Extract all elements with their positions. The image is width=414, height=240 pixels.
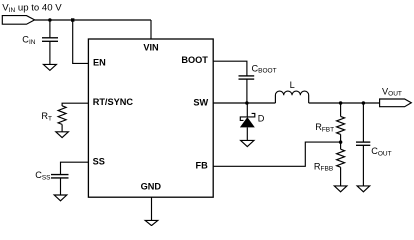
wire: CBOOT to SW node (246, 79, 248, 103)
wire: COUT lead down (362, 103, 364, 142)
node: CIN tap junction (48, 18, 52, 22)
svg-text:FB: FB (196, 160, 209, 170)
svg-text:EN: EN (93, 58, 106, 68)
diode D anode triangle (240, 117, 255, 127)
wire: CIN tap down (49, 20, 51, 38)
capacitor CBOOT (239, 76, 255, 79)
ground (CIN) (43, 64, 56, 70)
svg-text:SW: SW (193, 98, 208, 108)
wire: diode to ground (246, 127, 248, 140)
wire: SW node to diode (246, 103, 248, 117)
wire: GND pin down (151, 197, 153, 220)
resistor RT (58, 106, 66, 125)
op-amp U1 IC body (88, 39, 213, 197)
wire: RT/SYNC pin (62, 103, 88, 106)
wire: VIN drop into IC top (150, 20, 152, 39)
ground (RT) (56, 132, 69, 138)
wire: CIN to ground (49, 42, 51, 65)
node: FB divider junction (339, 140, 343, 144)
svg-text:SS: SS (93, 157, 105, 167)
resistor RFBT (337, 116, 345, 134)
capacitor COUT (356, 142, 370, 145)
node: SW junction (245, 101, 249, 105)
wire: RFBB to ground (340, 167, 342, 186)
wire: RT to ground (61, 124, 63, 131)
diode D schottky cathode bar (240, 113, 255, 120)
ground (GND pin) (145, 220, 158, 225)
svg-text:RT/SYNC: RT/SYNC (93, 97, 134, 107)
node: RFBT tap junction (339, 101, 343, 105)
wire: COUT to ground (362, 146, 364, 186)
wire: BOOT pin to CBOOT (213, 61, 247, 75)
svg-text:GND: GND (141, 182, 162, 192)
ground (COUT) (357, 186, 370, 192)
wire: SS pin (61, 162, 89, 174)
ground (diode) (241, 140, 254, 146)
capacitor CIN (42, 38, 58, 42)
wire: SW pin to inductor (213, 102, 275, 104)
ground (CSS) (54, 195, 67, 201)
resistor RFBB (337, 149, 345, 167)
capacitor CSS (51, 175, 69, 178)
node: COUT tap junction (362, 101, 366, 105)
wire: EN tap to EN pin (73, 20, 89, 63)
wire: inductor to VOUT tag (309, 102, 380, 104)
svg-text:D: D (258, 114, 265, 124)
svg-text:VIN: VIN (143, 43, 159, 53)
wire: FB node to FB pin (213, 142, 340, 166)
input terminal VIN tag (2, 16, 34, 25)
wire: RFBT lead down (340, 103, 342, 116)
svg-text:L: L (290, 80, 295, 90)
output terminal VOUT tag (380, 99, 412, 107)
inductor L (275, 91, 308, 103)
svg-text:BOOT: BOOT (181, 55, 208, 65)
wire: CSS to ground (60, 178, 62, 195)
node: EN tap junction (71, 18, 74, 21)
wire: input to VIN corner (35, 19, 151, 21)
ground (RFBB) (334, 186, 347, 192)
wire: RFBT to FB node (340, 134, 342, 149)
